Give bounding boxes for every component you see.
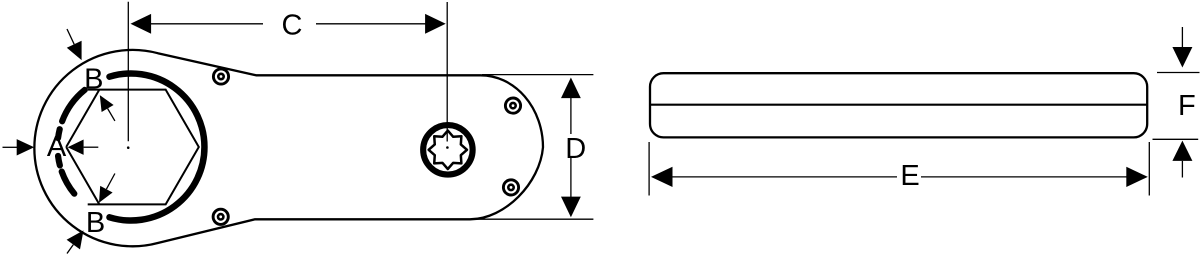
svg-text:F: F — [1178, 90, 1196, 122]
screw bottom-left — [213, 209, 228, 224]
dimension E extension right — [1148, 142, 1150, 196]
dimension D extension top — [482, 74, 593, 76]
dimension E extension left — [648, 142, 650, 196]
svg-text:B: B — [84, 64, 103, 96]
arrow A outer — [17, 139, 35, 155]
arrow C left — [131, 14, 152, 34]
side view parting line — [650, 104, 1147, 106]
dimension E line — [672, 176, 897, 178]
torx drive ring — [423, 125, 473, 175]
arrow F top — [1181, 27, 1183, 47]
arrow A inner — [68, 140, 84, 155]
screw top-right — [505, 98, 520, 113]
torx center dot — [446, 146, 449, 149]
torx star — [429, 131, 467, 169]
svg-text:C: C — [282, 9, 303, 41]
arrow B outer top — [67, 29, 74, 44]
arrow C right — [425, 14, 446, 34]
arrow D down — [561, 197, 581, 218]
arrow B inner top — [108, 109, 115, 121]
side view body — [650, 73, 1147, 137]
arrow B inner bottom — [106, 174, 115, 190]
dimension C line left — [151, 23, 264, 25]
dashed arc segment 1 — [62, 90, 85, 121]
arrow D up — [561, 78, 581, 99]
dimension C line right — [316, 23, 426, 25]
arrow E left — [651, 167, 673, 187]
dimension D line — [570, 98, 572, 134]
svg-text:A: A — [47, 131, 67, 163]
dashed arc segment 4 — [62, 172, 75, 194]
arrow B outer bottom — [67, 245, 73, 254]
head center dot — [127, 146, 130, 149]
dimension A inner arrow tail — [84, 146, 99, 148]
retaining ring thick arc — [110, 73, 205, 220]
wrench body outline (top view) — [34, 50, 543, 246]
hexagon opening — [66, 90, 199, 205]
dimension F extension top — [1157, 72, 1200, 74]
svg-text:B: B — [86, 207, 105, 239]
dimension D extension bottom — [468, 218, 593, 220]
dimension F extension bottom — [1153, 138, 1199, 140]
svg-text:D: D — [565, 133, 586, 165]
dashed arc segment 3 — [58, 156, 60, 165]
screw bottom-right — [503, 180, 518, 195]
arrow E right — [1126, 167, 1148, 187]
screw top-left — [213, 69, 228, 84]
dimension A outer arrow tail — [3, 146, 18, 148]
dashed arc segment 2 — [58, 129, 60, 138]
svg-text:E: E — [900, 160, 919, 192]
torx centerline — [446, 2, 448, 142]
arrow F bottom — [1181, 161, 1183, 178]
head centerline — [127, 2, 129, 141]
